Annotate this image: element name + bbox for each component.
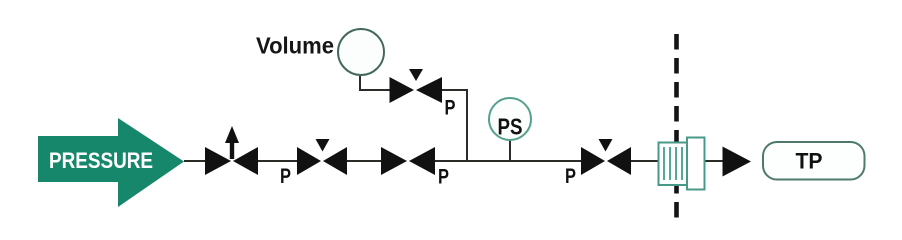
wire volume branch riser [442, 90, 467, 161]
valve V1 vent bleed valve [205, 126, 258, 175]
svg-text:Volume: Volume [256, 33, 334, 59]
label P of valve V4 [565, 165, 576, 188]
label P of valve V2 [280, 165, 291, 188]
wire main line segment V1 to V2 [257, 160, 298, 162]
valve V4 isolation valve [581, 139, 631, 175]
svg-text:P: P [565, 165, 576, 188]
wire main line segment V4 to coupling [631, 160, 659, 162]
test port TP [763, 142, 865, 180]
pressure source arrow [38, 118, 184, 207]
wire main line segment from arrow to valve V1 [184, 160, 207, 162]
flow direction arrow [723, 147, 752, 177]
boundary dashed line [674, 34, 679, 218]
quick-connect coupling body [659, 138, 705, 190]
wire main line segment V2 to V3 [346, 160, 383, 162]
valve V3 isolation valve [381, 147, 435, 175]
pressure switch PS [489, 98, 531, 140]
svg-text:TP: TP [796, 149, 823, 174]
label P of valve VT [445, 97, 456, 120]
svg-text:PS: PS [498, 114, 523, 140]
volume chamber circle [338, 29, 384, 75]
svg-text:PRESSURE: PRESSURE [49, 148, 153, 173]
svg-text:P: P [438, 166, 449, 189]
wire main line segment V3 to V4 [433, 160, 582, 162]
wire coupling to flow arrow [704, 160, 723, 162]
svg-text:P: P [445, 97, 456, 120]
label Volume [256, 33, 334, 59]
svg-text:P: P [280, 165, 291, 188]
label P of valve V3 [438, 166, 449, 189]
valve V2 isolation valve [297, 139, 347, 175]
wire PS sensing line [509, 140, 511, 161]
valve VT volume isolation valve [390, 69, 443, 103]
wire volume circle drop [360, 76, 390, 90]
